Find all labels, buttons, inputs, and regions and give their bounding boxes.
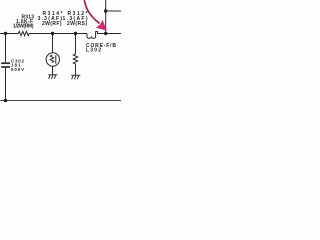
svg-text:2W(RF): 2W(RF) xyxy=(42,21,62,27)
svg-text:500V: 500V xyxy=(11,67,24,72)
svg-text:2W(RS): 2W(RS) xyxy=(67,21,87,27)
svg-text:L302: L302 xyxy=(86,48,101,54)
svg-text:1/2W(RM): 1/2W(RM) xyxy=(13,23,34,29)
